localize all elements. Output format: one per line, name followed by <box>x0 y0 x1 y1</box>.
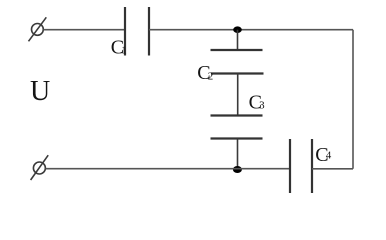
wire top-left: terminal to C1 <box>43 29 125 31</box>
capacitor C3 (horizontal plates) <box>211 116 263 139</box>
svg-text:4: 4 <box>326 150 332 162</box>
wire: node A down to C2 <box>237 30 239 50</box>
wire bottom-right: C4 to right edge <box>312 168 353 170</box>
node A (top junction dot) <box>233 26 242 33</box>
terminal top-left (circle with slash) <box>29 17 47 41</box>
svg-text:U: U <box>30 76 50 107</box>
wire: C3 down to node B <box>237 139 239 170</box>
wire bottom: terminal to C4 <box>46 168 291 170</box>
node B (bottom junction dot) <box>233 166 242 173</box>
capacitor C1 (vertical plates) <box>125 7 149 56</box>
terminal bottom-left (circle with slash) <box>31 155 49 180</box>
svg-text:3: 3 <box>259 100 265 112</box>
wire top-right: C1 to right edge <box>149 29 353 31</box>
wire right edge: vertical <box>352 30 354 169</box>
capacitor C2 (horizontal plates) <box>211 50 264 74</box>
svg-text:2: 2 <box>208 71 214 83</box>
wire: C2 to C3 <box>237 74 239 116</box>
capacitor C4 (vertical plates) <box>290 139 312 193</box>
svg-text:1: 1 <box>121 45 127 57</box>
